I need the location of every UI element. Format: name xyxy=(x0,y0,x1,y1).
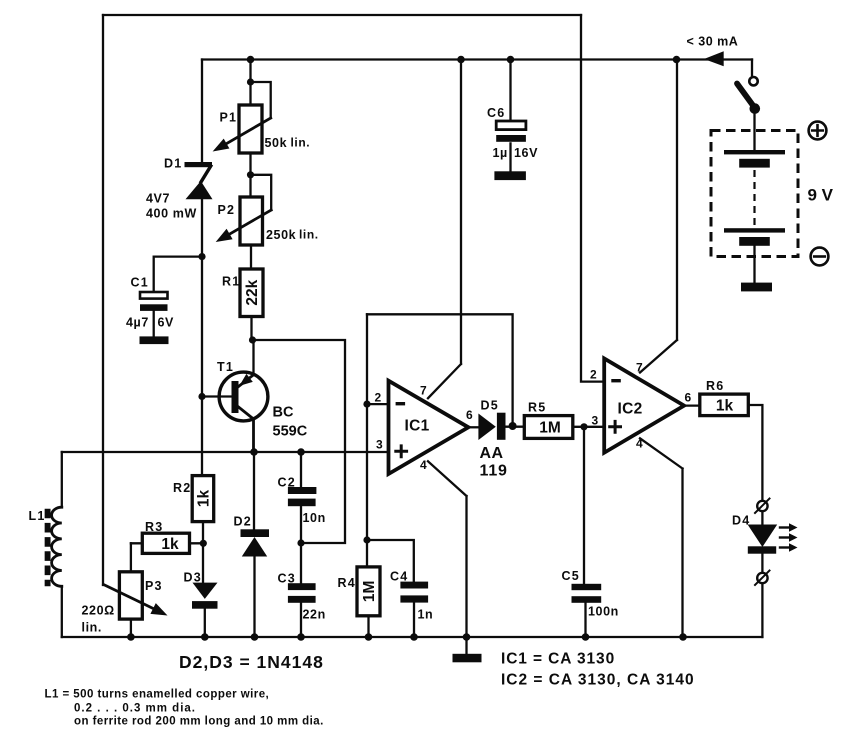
svg-text:6: 6 xyxy=(466,408,473,422)
node supply-IC2 pin7 xyxy=(673,56,681,64)
node R1-T1 junction xyxy=(249,336,256,343)
wire D1 junction down to R2 xyxy=(201,257,203,476)
node supply-IC1 pin7 xyxy=(457,56,465,64)
node C3-ground xyxy=(297,633,305,641)
svg-text:R2: R2 xyxy=(173,481,191,495)
svg-text:2: 2 xyxy=(375,391,382,405)
capacitor C5 100n xyxy=(562,427,619,637)
svg-text:220Ω: 220Ω xyxy=(82,604,115,618)
svg-text:1n: 1n xyxy=(418,608,434,622)
svg-text:C6: C6 xyxy=(487,106,505,120)
svg-text:on ferrite rod 200 mm long and: on ferrite rod 200 mm long and 10 mm dia… xyxy=(74,716,324,728)
node R4-ground xyxy=(365,633,373,641)
svg-text:2: 2 xyxy=(590,368,597,382)
svg-text:1k: 1k xyxy=(195,490,212,508)
svg-text:D2: D2 xyxy=(234,515,252,529)
wire IC2 pin7 supply xyxy=(640,60,677,373)
svg-text:10n: 10n xyxy=(303,511,326,525)
svg-text:< 30 mA: < 30 mA xyxy=(687,35,739,49)
node IC1 pin2 junction xyxy=(363,401,370,408)
battery cell 1 xyxy=(724,150,785,168)
node IC1 pin4 ground junction xyxy=(463,633,471,641)
svg-text:559C: 559C xyxy=(273,424,308,440)
wire R5 to IC2 pin3 xyxy=(573,426,604,428)
svg-text:C2: C2 xyxy=(278,476,296,490)
svg-text:T1: T1 xyxy=(217,360,234,374)
svg-text:R3: R3 xyxy=(145,520,163,534)
wire P2 to R1 xyxy=(250,245,252,269)
svg-text:lin.: lin. xyxy=(291,136,311,150)
node IC2 pin3 C5 junction xyxy=(580,423,587,430)
node minus terminal symbol xyxy=(811,248,829,266)
node C2-C3 junction xyxy=(297,539,304,546)
node D5-R5 feedback junction xyxy=(509,422,517,430)
battery BT1 9V dashed box xyxy=(711,131,798,257)
op-amp IC1 xyxy=(375,381,474,474)
svg-text:22n: 22n xyxy=(303,608,326,622)
wire P1 to P2 xyxy=(249,153,251,197)
svg-text:C1: C1 xyxy=(131,276,149,290)
node D1-C1 junction xyxy=(198,253,205,260)
battery cell 2 xyxy=(724,228,785,246)
svg-text:IC2: IC2 xyxy=(618,401,643,418)
svg-text:6: 6 xyxy=(685,391,692,405)
resistor R3 1k xyxy=(131,520,203,553)
wire emitter junction to C2C3 link xyxy=(253,340,346,543)
svg-text:lin.: lin. xyxy=(299,228,319,242)
current arrow < 30 mA xyxy=(704,51,724,66)
svg-text:250k: 250k xyxy=(266,228,296,242)
svg-text:1k: 1k xyxy=(716,398,734,415)
node C4-ground xyxy=(410,633,418,641)
svg-text:22k: 22k xyxy=(244,279,261,305)
svg-text:16V: 16V xyxy=(514,146,538,160)
svg-text:P3: P3 xyxy=(145,579,163,593)
node supply-P1 xyxy=(247,56,255,64)
svg-text:4V7: 4V7 xyxy=(146,192,170,206)
svg-text:L1 = 500 turns enamelled coppe: L1 = 500 turns enamelled copper wire, xyxy=(45,689,270,701)
node R4-C4 junction xyxy=(363,536,370,543)
ground symbol IC1 xyxy=(453,637,482,662)
wire IC2 pin4 ground xyxy=(640,438,683,637)
potentiometer P3 220R xyxy=(82,572,168,637)
svg-text:D2,D3 = 1N4148: D2,D3 = 1N4148 xyxy=(179,652,324,672)
wire IC1 pin4 ground xyxy=(428,461,467,637)
potentiometer P1 xyxy=(213,105,311,153)
resistor R4 1M xyxy=(338,567,381,637)
diode D1 zener 4V7 xyxy=(146,60,213,257)
diode D3 1N4148 xyxy=(184,571,218,638)
switch S1 xyxy=(737,77,760,150)
svg-text:IC2 = CA 3130, CA 3140: IC2 = CA 3130, CA 3140 xyxy=(501,672,695,689)
svg-text:R1: R1 xyxy=(222,275,240,289)
resistor R6 1k xyxy=(684,379,762,501)
wire P1 wiper feed xyxy=(251,82,271,118)
svg-text:C4: C4 xyxy=(390,570,408,584)
node T1 base junction xyxy=(198,393,205,400)
svg-text:119: 119 xyxy=(480,463,508,480)
node P2 wiper junction xyxy=(247,171,254,178)
wire P2 wiper feed xyxy=(251,175,272,210)
wire right frame vertical to IC2 pin 2 xyxy=(581,15,604,382)
wire IC1 pin2 R4 vertical xyxy=(366,314,368,567)
wire R1 to T1 emitter junction xyxy=(250,317,252,341)
svg-text:3: 3 xyxy=(376,438,383,452)
svg-text:50k: 50k xyxy=(265,136,288,150)
wire left frame vertical to P3 wiper xyxy=(102,15,104,585)
svg-text:4: 4 xyxy=(420,458,427,472)
diode D2 1N4148 xyxy=(234,452,270,637)
resistor R5 1M xyxy=(524,401,573,439)
capacitor C4 1n xyxy=(390,570,433,638)
wire R2 to D3 xyxy=(202,522,204,583)
LED light arrows xyxy=(780,523,798,551)
diode D5 AA119 xyxy=(468,399,524,480)
wire ground rail bottom xyxy=(62,636,763,638)
resistor R1 22k xyxy=(222,269,263,317)
wire oscillator rail to IC1 pin3 xyxy=(62,451,389,453)
svg-text:3: 3 xyxy=(592,414,599,428)
svg-text:R4: R4 xyxy=(338,576,356,590)
svg-text:1k: 1k xyxy=(161,536,179,553)
node plus terminal symbol xyxy=(809,122,827,140)
node P3-ground xyxy=(127,633,135,641)
wire battery bottom lead xyxy=(753,246,755,283)
wire R3 to P3 xyxy=(130,543,132,572)
svg-text:lin.: lin. xyxy=(82,621,102,635)
svg-text:1µ: 1µ xyxy=(493,146,508,160)
node T1 collector junction xyxy=(250,448,258,456)
capacitor C3 22n xyxy=(278,543,326,637)
wire battery mid dashed xyxy=(753,170,755,228)
node R2-R3-D3 junction xyxy=(200,540,207,547)
svg-text:1M: 1M xyxy=(539,420,561,437)
svg-text:D1: D1 xyxy=(164,157,182,171)
wire top frame horizontal xyxy=(103,14,581,16)
node C5-ground xyxy=(582,633,590,641)
svg-text:9 V: 9 V xyxy=(808,186,834,205)
svg-text:R6: R6 xyxy=(706,379,724,393)
wire IC1 pin7 supply xyxy=(428,60,461,399)
svg-text:P1: P1 xyxy=(220,111,238,125)
svg-text:IC1 = CA 3130: IC1 = CA 3130 xyxy=(501,651,615,668)
svg-text:0.2 . . . 0.3 mm dia.: 0.2 . . . 0.3 mm dia. xyxy=(74,703,196,715)
svg-text:P2: P2 xyxy=(218,203,236,217)
LED D4 xyxy=(732,499,777,638)
svg-text:R5: R5 xyxy=(528,401,546,415)
node supply-C6 xyxy=(507,56,515,64)
svg-text:IC1: IC1 xyxy=(405,418,430,435)
inductor L1 xyxy=(29,452,62,637)
node IC2 pin4 ground junction xyxy=(679,633,687,641)
ground battery terminal bar xyxy=(741,283,772,292)
svg-text:D5: D5 xyxy=(481,399,499,413)
svg-text:6V: 6V xyxy=(158,316,175,330)
svg-text:400 mW: 400 mW xyxy=(146,207,197,221)
svg-text:1M: 1M xyxy=(361,581,378,603)
wire IC1 pin2 lead xyxy=(367,403,389,405)
wire supply corner down to switch xyxy=(751,60,753,78)
wire supply rail xyxy=(202,58,752,60)
capacitor C2 10n xyxy=(278,452,326,543)
node D3-ground xyxy=(201,633,209,641)
resistor R2 1k xyxy=(173,476,214,522)
capacitor C6 1u 16V xyxy=(487,60,538,181)
potentiometer P2 xyxy=(216,197,319,245)
wire R4 junction to C4 xyxy=(367,540,414,582)
transistor T1 BC559C xyxy=(202,340,308,452)
svg-text:100n: 100n xyxy=(588,605,619,619)
wire feedback loop xyxy=(367,314,513,424)
node P1 wiper junction xyxy=(247,78,254,85)
svg-text:AA: AA xyxy=(480,445,504,462)
wire P1 top lead xyxy=(249,60,251,106)
svg-text:C5: C5 xyxy=(562,569,580,583)
node D2-ground xyxy=(251,633,259,641)
node C2 top junction xyxy=(297,448,305,456)
capacitor C1 4u7 electrolytic xyxy=(126,257,202,345)
svg-text:7: 7 xyxy=(420,384,427,398)
svg-text:4µ7: 4µ7 xyxy=(126,316,149,330)
svg-text:D3: D3 xyxy=(184,571,202,585)
svg-text:D4: D4 xyxy=(732,514,750,528)
op-amp IC2 xyxy=(590,359,692,453)
svg-text:C3: C3 xyxy=(278,572,296,586)
svg-text:BC: BC xyxy=(273,405,294,421)
svg-text:L1: L1 xyxy=(29,509,46,523)
